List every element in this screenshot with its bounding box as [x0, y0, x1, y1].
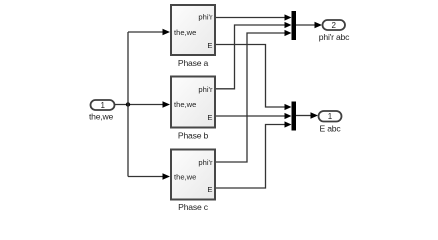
- svg-text:2: 2: [331, 21, 336, 30]
- svg-text:E: E: [207, 41, 212, 50]
- wire branch to Phase c: [128, 173, 170, 180]
- wire mux1 to outport 2: [296, 22, 322, 29]
- svg-text:phi'r abc: phi'r abc: [319, 32, 350, 42]
- node junction: [126, 102, 130, 106]
- svg-text:E abc: E abc: [320, 123, 342, 133]
- wire Phase b E to mux2 in2: [216, 113, 292, 119]
- svg-text:1: 1: [328, 112, 333, 121]
- svg-text:Phase b: Phase b: [178, 130, 209, 140]
- svg-text:Phase a: Phase a: [178, 58, 209, 68]
- subsystem Phase a: [171, 5, 215, 68]
- outport 1 E abc: [319, 111, 342, 133]
- svg-text:the,we: the,we: [174, 28, 196, 37]
- mux Mux1: [292, 11, 297, 40]
- wire mux2 to outport 1: [296, 112, 318, 119]
- subsystem Phase b: [171, 77, 215, 141]
- wire Phase c phi'r to mux1 in3: [216, 30, 292, 162]
- svg-text:1: 1: [100, 101, 105, 110]
- svg-text:E: E: [207, 185, 212, 194]
- wire branch to Phase a: [128, 29, 170, 36]
- svg-text:phi'r: phi'r: [198, 85, 213, 94]
- inport 1 the,we: [89, 100, 115, 122]
- wire Phase c E to mux2 in3: [216, 121, 292, 188]
- wire Phase b phi'r to mux1 in2: [216, 22, 292, 89]
- svg-text:E: E: [207, 113, 212, 122]
- wire Phase a phi'r to mux1 in1: [216, 14, 292, 20]
- outport 2 phi'r abc: [319, 20, 350, 42]
- subsystem Phase c: [171, 150, 215, 212]
- mux Mux2: [292, 102, 297, 131]
- wire trunk vertical: [127, 32, 129, 177]
- svg-text:phi'r: phi'r: [198, 158, 213, 167]
- svg-text:the,we: the,we: [89, 112, 114, 122]
- svg-text:phi'r: phi'r: [198, 13, 213, 22]
- svg-text:Phase c: Phase c: [178, 202, 209, 212]
- svg-text:the,we: the,we: [174, 172, 196, 181]
- wire Phase a E to mux2 in1: [216, 45, 292, 111]
- svg-text:the,we: the,we: [174, 100, 196, 109]
- wire inport to Phase b: [115, 101, 170, 108]
